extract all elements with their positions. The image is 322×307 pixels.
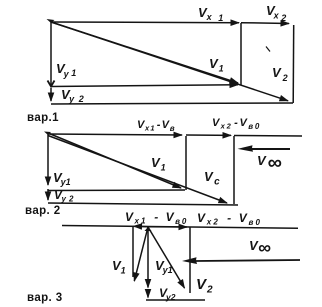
svg-text:Vx2-Vв0: Vx2-Vв0	[212, 117, 261, 131]
svg-text:Vx1 - Vв0: Vx1 - Vв0	[125, 210, 188, 226]
diagram 1: stray tick	[266, 47, 270, 52]
diagram 3: vertical at left under line	[132, 227, 134, 277]
svg-text:вар.1: вар.1	[27, 112, 59, 124]
diagram 2: bottom line	[48, 203, 238, 205]
diagram 3: vector V2 slanted	[148, 227, 185, 288]
diagram 2: right vertical	[233, 136, 235, 204]
diagram 2: middle vertical	[185, 136, 187, 190]
svg-text:Vy2: Vy2	[61, 87, 84, 104]
diagram 1: vector V1 diagonal	[51, 22, 238, 83]
diagram 2: top line segment to first arrow	[48, 134, 182, 135]
diagram 3: top line	[62, 226, 298, 229]
diagram 1: vector V2 diagonal	[51, 22, 288, 101]
diagram 2: corner blob	[44, 132, 51, 136]
svg-text:V∞: V∞	[249, 238, 271, 258]
svg-text:V1: V1	[209, 56, 224, 74]
svg-text:Vy1: Vy1	[155, 258, 173, 275]
diagram 1: top line segment Vx1	[51, 21, 239, 24]
diagram 2: vector V1 diagonal	[48, 133, 181, 188]
svg-text:Vx2: Vx2	[266, 3, 286, 23]
diagram 1: left vertical Vy1 part	[50, 22, 52, 86]
diagram 3: right arrow on line	[148, 226, 187, 228]
diagram 2: top line segment to second arrow	[186, 134, 231, 136]
svg-text:Vx1: Vx1	[198, 5, 223, 23]
diagram 2: left vertical Vy2 part	[47, 189, 49, 200]
diagram 3: apex blob	[145, 227, 152, 231]
diagram 3: Vb0 arrowhead d3	[182, 257, 197, 264]
svg-text:вар. 2: вар. 2	[25, 205, 61, 217]
diagram 2: middle horizontal at y1 level	[48, 189, 185, 192]
diagram 1: middle horizontal at y1 level	[51, 85, 238, 87]
svg-text:Vy1: Vy1	[53, 170, 71, 187]
diagram 1: bottom line	[51, 103, 293, 104]
diagram 2: Vb0 left arrow	[252, 148, 290, 150]
diagram 1: top line segment Vx2	[241, 22, 289, 25]
diagram 2: left vertical Vy1 part	[47, 134, 49, 185]
svg-text:Vy1: Vy1	[56, 61, 76, 79]
svg-text:вар. 3: вар. 3	[27, 292, 63, 304]
diagram 3: left arrow on line	[134, 225, 149, 228]
svg-text:Vx2 - Vв0: Vx2 - Vв0	[197, 211, 262, 227]
diagram 1: right vertical	[292, 25, 295, 103]
svg-text:V2: V2	[272, 65, 288, 83]
diagram 1: left vertical Vy2 part	[50, 88, 52, 101]
diagram 3: Vb0 left arrow line	[196, 260, 300, 261]
svg-text:Vy2: Vy2	[159, 286, 176, 302]
diagram 1: corner blob	[47, 19, 55, 23]
diagram 3: central vertical Vy2	[147, 291, 149, 298]
svg-text:V1: V1	[112, 258, 126, 276]
diagram 3: central vertical Vy1	[147, 227, 149, 288]
svg-text:V∞: V∞	[257, 152, 282, 174]
diagram 2: Vb0 arrowhead	[238, 145, 254, 152]
diagram 2: vector Vc diagonal	[48, 136, 227, 204]
diagram 2: top line remainder to right edge	[234, 135, 302, 138]
diagram 3: short bottom line	[146, 299, 205, 301]
svg-text:V2: V2	[196, 276, 213, 296]
svg-text:V1: V1	[151, 155, 166, 173]
diagram 3: vertical from right arrow	[189, 228, 191, 294]
svg-text:Vc: Vc	[204, 169, 220, 188]
diagram 1: Vy1 chevron arrowhead	[48, 81, 55, 87]
diagram 1: middle vertical	[240, 23, 242, 86]
diagram 3: vector V1 slanted	[134, 227, 148, 281]
svg-text:Vx1-Vв: Vx1-Vв	[137, 119, 176, 133]
